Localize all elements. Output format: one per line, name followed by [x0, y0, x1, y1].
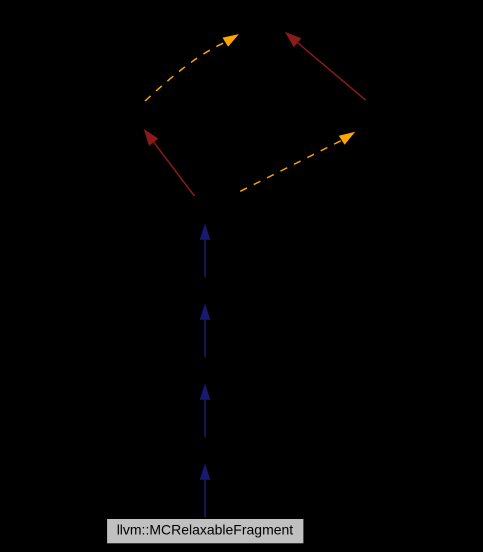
node: llvm::MCFragment (invisible box): [150, 197, 260, 223]
template relation arrow: left node to top node (orange dashed, curved): [145, 34, 239, 101]
private inheritance arrow: center node to left node (dark red solid): [144, 129, 195, 196]
node: right base class (invisible box): [305, 105, 415, 131]
svg-text:llvm::MCRelaxableFragment: llvm::MCRelaxableFragment: [117, 522, 294, 538]
node: left base class (invisible box): [95, 105, 195, 131]
inheritance arrow 3: MCEncodedFragmentWithFixups to MCEncodedFragmentWithContents (blue solid): [200, 384, 211, 438]
node: llvm::MCEncodedFragmentWithContents (invisible box): [150, 358, 260, 384]
private inheritance arrow: right node to top node (dark red solid): [285, 32, 366, 100]
inheritance arrow 4: MCRelaxableFragment to MCEncodedFragmentWithFixups (blue solid): [200, 464, 211, 518]
node: llvm::MCEncodedFragmentWithFixups (invisible box): [150, 438, 260, 464]
node: llvm::MCEncodedFragment (invisible box): [150, 278, 260, 304]
template relation arrow: center node to right node (orange dashed): [238, 132, 356, 193]
node: llvm::MCRelaxableFragment (selected, gray box): [107, 519, 304, 544]
inheritance arrow 2: MCEncodedFragmentWithContents to MCEncodedFragment (blue solid): [200, 304, 211, 358]
node: top base class (invisible box): [210, 8, 320, 34]
inheritance arrow 1: MCEncodedFragment to MCFragment (blue solid): [200, 224, 211, 278]
